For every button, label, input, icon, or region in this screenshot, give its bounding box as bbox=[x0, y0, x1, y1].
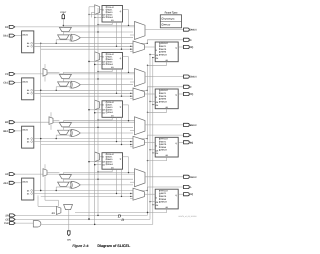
wire to CMUX output bbox=[145, 76, 184, 78]
wire CLK bus bbox=[41, 223, 153, 225]
input pin CE bbox=[10, 218, 16, 221]
mux B5FFMUX bbox=[95, 100, 100, 110]
wire to DMUX output bbox=[145, 29, 184, 31]
wire to A output bbox=[147, 190, 148, 191]
svg-text:CIN: CIN bbox=[67, 239, 71, 242]
wire 5FF Q out bbox=[123, 104, 129, 106]
wire FF SR bbox=[166, 109, 168, 113]
carry mux CYMUXC bbox=[59, 74, 71, 78]
storage element D5FF bbox=[102, 6, 123, 23]
mux CFFMUX bbox=[133, 88, 144, 100]
wire carry A out bbox=[47, 172, 59, 174]
wire CE bus bbox=[15, 218, 150, 220]
wire CLK to gate bbox=[15, 222, 33, 224]
output pin C bbox=[184, 85, 190, 88]
mux A5FFMUX lower bbox=[58, 182, 69, 186]
wire carry stub bbox=[62, 173, 64, 175]
xor gate XORCY C bbox=[71, 81, 80, 88]
svg-text:BQ: BQ bbox=[190, 141, 194, 144]
svg-text:SRHI: SRHI bbox=[161, 51, 166, 54]
svg-text:CQ: CQ bbox=[190, 93, 194, 96]
wire carry to outmux bbox=[63, 120, 134, 122]
svg-text:D: D bbox=[190, 39, 192, 42]
wire lower routing bbox=[41, 195, 133, 197]
wire mux2 out bbox=[62, 32, 64, 35]
svg-text:A6:1: A6:1 bbox=[3, 182, 9, 185]
vertical net CLK distribution bbox=[94, 7, 96, 225]
input pin BX bbox=[9, 121, 15, 124]
wire AX to muxes bbox=[15, 173, 135, 175]
svg-text:DX: DX bbox=[5, 26, 9, 29]
svg-text:SRHI: SRHI bbox=[161, 146, 166, 149]
mux D5FFMUX lower bbox=[58, 35, 69, 39]
svg-text:SRLO: SRLO bbox=[161, 53, 167, 56]
svg-text:O6: O6 bbox=[27, 42, 29, 45]
wire FF Q to BQ bbox=[178, 141, 183, 143]
wire carry A in bbox=[44, 176, 46, 181]
wire carry B up bbox=[50, 112, 52, 117]
junction ffmux inputs bbox=[130, 46, 131, 47]
mux BOUTMUX bbox=[135, 117, 146, 135]
svg-text:A6:A1: A6:A1 bbox=[22, 80, 28, 83]
mux COUTMUX bbox=[135, 69, 146, 87]
svg-text:SRLO: SRLO bbox=[161, 100, 167, 103]
svg-text:AMUX: AMUX bbox=[190, 176, 197, 179]
wire 5FF CE bbox=[89, 161, 102, 163]
wire outmux inputs bbox=[130, 34, 135, 36]
wire outmux inputs bbox=[130, 181, 135, 183]
vertical net D O5 feedback bbox=[116, 22, 118, 46]
junction ffmux inputs bbox=[130, 93, 131, 94]
xor gate XORCY A bbox=[71, 181, 80, 188]
wire lower routing bbox=[41, 95, 133, 97]
vertical net C O6 feedback bbox=[121, 69, 123, 96]
svg-text:O6: O6 bbox=[27, 138, 29, 141]
input pin D6:1 bbox=[9, 34, 15, 37]
vertical net FF SR column bbox=[147, 65, 149, 215]
svg-text:INIT1: INIT1 bbox=[161, 192, 167, 195]
junction COUT bbox=[63, 25, 64, 26]
svg-text:D: D bbox=[120, 218, 124, 222]
svg-text:A6:A1: A6:A1 bbox=[22, 129, 28, 132]
wire FF CE bbox=[150, 54, 155, 56]
wire carry to outmux bbox=[63, 172, 134, 174]
wire 5FF CE bbox=[89, 109, 102, 111]
svg-text:CLK: CLK bbox=[4, 222, 9, 225]
wire FF SR bbox=[166, 209, 168, 213]
svg-text:DMUX: DMUX bbox=[190, 29, 197, 32]
svg-text:O5: O5 bbox=[27, 141, 29, 144]
LUT D6LUT bbox=[22, 31, 34, 53]
wire FF CE bbox=[150, 101, 155, 103]
wire FF CK bbox=[153, 152, 155, 154]
wire carry stub bbox=[62, 72, 64, 74]
wire xor lower input bbox=[56, 186, 70, 188]
wire ffmux input bbox=[130, 198, 133, 200]
svg-text:SRLO: SRLO bbox=[108, 63, 114, 66]
vertical net C O5 feedback bbox=[116, 69, 118, 93]
output pin DQ bbox=[184, 45, 190, 48]
mux BFFMUX bbox=[133, 136, 144, 148]
wire carry B in bbox=[50, 124, 52, 129]
vertical net FF CK column bbox=[152, 58, 154, 225]
svg-text:CMUX: CMUX bbox=[190, 76, 197, 79]
carry mux CYMUXD bbox=[59, 27, 71, 31]
storage element C5FF bbox=[102, 53, 123, 70]
wire to D output bbox=[147, 43, 148, 44]
svg-text:BMUX: BMUX bbox=[190, 124, 197, 127]
wire O6 bbox=[34, 42, 148, 44]
wire outmux inputs bbox=[130, 129, 135, 131]
wire ffmux to FF D bbox=[144, 141, 155, 143]
wire carry C in bbox=[44, 76, 46, 81]
wire carry C out bbox=[47, 71, 59, 73]
wire mux to 5FF D bbox=[100, 156, 103, 158]
wire C6:1 to LUT bbox=[15, 82, 22, 84]
svg-text:SR: SR bbox=[5, 214, 9, 217]
wire ffmux to FF D bbox=[144, 93, 155, 95]
svg-text:O6: O6 bbox=[27, 189, 29, 192]
output pin D bbox=[184, 38, 190, 41]
wire xor output bbox=[80, 132, 133, 134]
wire outmux inputs bbox=[130, 81, 135, 83]
output pin B bbox=[184, 134, 190, 137]
wire 5FF Q out bbox=[123, 56, 129, 58]
wire 5FF Q out bbox=[123, 9, 129, 11]
mux D5FFMUX bbox=[95, 5, 100, 15]
wire carry B out bbox=[53, 120, 59, 122]
svg-text:FF/LAT: FF/LAT bbox=[161, 189, 168, 192]
carry mux CYMUXB bbox=[59, 123, 71, 127]
wire FF Q to AQ bbox=[178, 193, 183, 195]
wire O6 bbox=[34, 89, 148, 91]
wire 5FF SR bbox=[111, 117, 113, 120]
svg-text:C: C bbox=[190, 86, 192, 89]
wire O5 bbox=[34, 92, 133, 94]
mux CYINIT bbox=[56, 206, 61, 214]
wire 5FF CE bbox=[89, 14, 102, 16]
junction O6 bbox=[40, 138, 41, 139]
vertical net B O6 feedback bbox=[121, 117, 123, 144]
svg-text:Figure 2-4:Diagram of SLICEL: Figure 2-4:Diagram of SLICEL bbox=[72, 244, 131, 248]
wire BX to muxes bbox=[15, 121, 135, 123]
output pin A bbox=[184, 185, 190, 188]
mux AFFMUX bbox=[133, 188, 144, 200]
svg-text:SRHI: SRHI bbox=[161, 198, 166, 201]
wire carry to outmux bbox=[63, 71, 134, 73]
svg-text:SRHI: SRHI bbox=[161, 98, 166, 101]
wire SR bus bbox=[15, 214, 147, 216]
wire O5 bbox=[34, 193, 133, 195]
pin COUT bbox=[62, 14, 65, 19]
svg-text:SRLO: SRLO bbox=[108, 16, 114, 19]
wire 5FF CK bbox=[95, 64, 102, 66]
wire A SR long bbox=[75, 212, 148, 214]
mux carry bottom bbox=[64, 205, 73, 210]
input pin DX bbox=[9, 25, 15, 28]
wire FF SR bbox=[166, 157, 168, 161]
svg-text:INIT1: INIT1 bbox=[161, 140, 167, 143]
wire ffmux input bbox=[130, 51, 133, 53]
wire 5FF CK bbox=[95, 164, 102, 166]
wire mux2 out bbox=[62, 79, 64, 82]
LUT A6LUT bbox=[22, 178, 34, 200]
wire ffmux to FF D bbox=[144, 193, 155, 195]
wire mux to 5FF D bbox=[100, 9, 103, 11]
wire ffmux to FF D bbox=[144, 46, 155, 48]
wire 5FF CE bbox=[89, 61, 102, 63]
svg-text:D6:1: D6:1 bbox=[3, 35, 9, 38]
svg-text:INIT0: INIT0 bbox=[161, 195, 167, 198]
svg-text:O5: O5 bbox=[27, 45, 29, 48]
svg-text:CX: CX bbox=[5, 73, 9, 76]
wire FF Q to DQ bbox=[178, 46, 183, 48]
junction ffmux inputs bbox=[130, 193, 131, 194]
wire CX to muxes bbox=[15, 73, 135, 75]
wire xor output bbox=[80, 84, 133, 86]
wire O6 bbox=[34, 190, 148, 192]
wire carry stub bbox=[62, 121, 64, 123]
svg-text:SRLO: SRLO bbox=[108, 111, 114, 114]
wire to BMUX output bbox=[145, 124, 184, 126]
input pin CX bbox=[9, 72, 15, 75]
LUT B6LUT bbox=[22, 126, 34, 148]
storage element B5FF bbox=[102, 101, 123, 118]
wire FF SR bbox=[166, 62, 168, 66]
output pin CMUX bbox=[184, 75, 190, 78]
vertical net D O6 feedback bbox=[121, 22, 123, 49]
wire lower routing bbox=[41, 48, 133, 50]
storage element A5FF bbox=[102, 153, 123, 170]
input pin AX bbox=[9, 173, 15, 176]
output pin CQ bbox=[184, 92, 190, 95]
svg-text:BX: BX bbox=[5, 121, 9, 124]
mux DFFMUX bbox=[133, 41, 144, 53]
svg-text:Reset Type: Reset Type bbox=[165, 12, 178, 15]
vertical net A O6 feedback bbox=[121, 169, 123, 196]
svg-text:CE: CE bbox=[5, 218, 9, 221]
wire lower routing bbox=[41, 144, 133, 146]
svg-text:FF/LAT: FF/LAT bbox=[161, 89, 168, 92]
junction O6 bbox=[40, 190, 41, 191]
wire FF CE bbox=[150, 149, 155, 151]
svg-text:C6:1: C6:1 bbox=[3, 82, 9, 85]
wire to C output bbox=[147, 90, 148, 91]
wire 5FF SR bbox=[111, 22, 113, 25]
junction O6 bbox=[40, 43, 41, 44]
wire carry C up bbox=[44, 64, 46, 69]
wire D6:1 to LUT bbox=[15, 35, 22, 37]
storage element CFF bbox=[155, 89, 178, 109]
wire xor lower input bbox=[56, 134, 70, 136]
wire mux to 5FF D bbox=[100, 56, 103, 58]
input pin A6:1 bbox=[9, 181, 15, 184]
junction O6 bbox=[40, 90, 41, 91]
svg-text:FF/LAT: FF/LAT bbox=[161, 138, 168, 141]
svg-text:A6:A1: A6:A1 bbox=[22, 181, 28, 184]
input pin C6:1 bbox=[9, 81, 15, 84]
svg-text:SRLO: SRLO bbox=[108, 163, 114, 166]
wire mux2 out bbox=[62, 127, 64, 130]
wire ffmux input bbox=[130, 98, 133, 100]
svg-text:INIT1: INIT1 bbox=[161, 45, 167, 48]
wire 5FF SR bbox=[111, 169, 113, 172]
svg-text:AQ: AQ bbox=[190, 193, 194, 196]
wire FF Q to CQ bbox=[178, 93, 183, 95]
svg-text:FF/LAT: FF/LAT bbox=[164, 24, 171, 27]
wire carry A up bbox=[44, 164, 46, 169]
wire AX to cyinit bbox=[37, 196, 39, 207]
wire xor output bbox=[80, 184, 133, 186]
svg-text:COUT: COUT bbox=[60, 11, 67, 14]
wire FF CE bbox=[150, 201, 155, 203]
wire ffmux input bbox=[130, 146, 133, 148]
carry mux MUXCY A bbox=[43, 169, 47, 177]
svg-text:UG474_c2_03_101210: UG474_c2_03_101210 bbox=[178, 215, 196, 218]
output pin DMUX bbox=[184, 28, 190, 31]
vertical net CE distribution bbox=[88, 7, 90, 219]
clock gate bbox=[33, 221, 41, 227]
wire carry to outmux bbox=[63, 24, 134, 26]
xor gate XORCY B bbox=[71, 130, 80, 137]
junction ffmux inputs bbox=[130, 141, 131, 142]
vertical net A O5 feedback bbox=[116, 169, 118, 193]
output pin BQ bbox=[184, 141, 190, 144]
svg-text:DQ: DQ bbox=[190, 46, 194, 49]
storage element DFF bbox=[155, 42, 178, 62]
wire FF CK bbox=[153, 57, 155, 59]
mux B5FFMUX lower bbox=[58, 130, 69, 134]
mux AOUTMUX bbox=[135, 169, 146, 187]
wire to B output bbox=[147, 138, 148, 139]
vertical net FF CE column bbox=[149, 55, 151, 220]
wire carry init path bbox=[57, 200, 59, 206]
output pin BMUX bbox=[184, 123, 190, 126]
svg-text:INIT0: INIT0 bbox=[161, 48, 167, 51]
vertical net B O5 feedback bbox=[116, 117, 118, 141]
mux C5FFMUX bbox=[95, 52, 100, 62]
svg-text:Sync/Async: Sync/Async bbox=[164, 18, 174, 21]
wire A6:1 to LUT bbox=[15, 182, 22, 184]
svg-text:SRLO: SRLO bbox=[161, 149, 167, 152]
svg-text:FF/LAT: FF/LAT bbox=[161, 42, 168, 45]
wire 5FF Q out bbox=[123, 156, 129, 158]
output pin AMUX bbox=[184, 175, 190, 178]
xor gate XORCY D bbox=[71, 34, 80, 41]
wire O6 bbox=[34, 138, 148, 140]
carry mux MUXCY C bbox=[43, 69, 47, 77]
input pin SR bbox=[10, 214, 16, 217]
wire B6:1 to LUT bbox=[15, 130, 22, 132]
input pin CLK bbox=[10, 222, 16, 225]
carry mux CYMUXA bbox=[59, 175, 71, 179]
wire xor output bbox=[80, 37, 133, 39]
wire xor lower input bbox=[56, 86, 70, 88]
svg-text:B6:1: B6:1 bbox=[3, 130, 9, 133]
wire mux to 5FF D bbox=[100, 104, 103, 106]
svg-text:A6:A1: A6:A1 bbox=[22, 33, 28, 36]
svg-text:O5: O5 bbox=[27, 92, 29, 95]
wire 5FF CK bbox=[95, 17, 102, 19]
storage element BFF bbox=[155, 137, 178, 157]
wire O5 bbox=[34, 45, 133, 47]
wire to AMUX output bbox=[145, 176, 184, 178]
svg-text:O5: O5 bbox=[27, 192, 29, 195]
wire carry stub bbox=[62, 25, 64, 27]
svg-text:SRLO: SRLO bbox=[161, 201, 167, 204]
wire DX to muxes bbox=[15, 26, 135, 28]
wire mux2 out bbox=[62, 179, 64, 182]
output pin AQ bbox=[184, 193, 190, 196]
wire FF CK bbox=[153, 104, 155, 106]
storage element AFF bbox=[155, 189, 178, 209]
vertical net SR distribution bbox=[97, 8, 99, 215]
svg-text:AX: AX bbox=[5, 173, 9, 176]
mux A5FFMUX bbox=[95, 152, 100, 162]
wire CIN riser bbox=[68, 210, 70, 231]
input pin B6:1 bbox=[9, 129, 15, 132]
carry mux MUXCY B bbox=[49, 117, 53, 125]
wire FF CK bbox=[153, 204, 155, 206]
vertical net O6 column bbox=[40, 43, 42, 190]
wire COUT down bbox=[62, 19, 64, 28]
svg-text:INIT0: INIT0 bbox=[161, 95, 167, 98]
wire O5 bbox=[34, 141, 133, 143]
wire 5FF CK bbox=[95, 112, 102, 114]
LUT C6LUT bbox=[22, 78, 34, 100]
wire xor lower input bbox=[56, 39, 70, 41]
mux DOUTMUX bbox=[135, 22, 146, 40]
wire 5FF SR bbox=[111, 69, 113, 72]
pin CIN bbox=[68, 231, 71, 236]
svg-text:INIT1: INIT1 bbox=[161, 92, 167, 95]
svg-text:INIT0: INIT0 bbox=[161, 143, 167, 146]
svg-text:O6: O6 bbox=[27, 89, 29, 92]
mux C5FFMUX lower bbox=[58, 82, 69, 86]
